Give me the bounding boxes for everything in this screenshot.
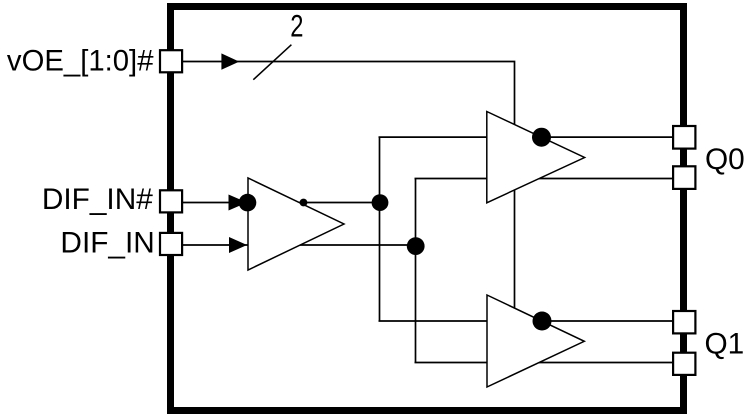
svg-text:vOE_[1:0]#: vOE_[1:0]# (7, 45, 154, 78)
svg-text:Q0: Q0 (705, 143, 745, 176)
svg-text:DIF_IN#: DIF_IN# (42, 183, 153, 216)
svg-text:Q1: Q1 (705, 327, 745, 360)
svg-text:2: 2 (290, 7, 303, 43)
svg-text:DIF_IN: DIF_IN (60, 226, 154, 259)
